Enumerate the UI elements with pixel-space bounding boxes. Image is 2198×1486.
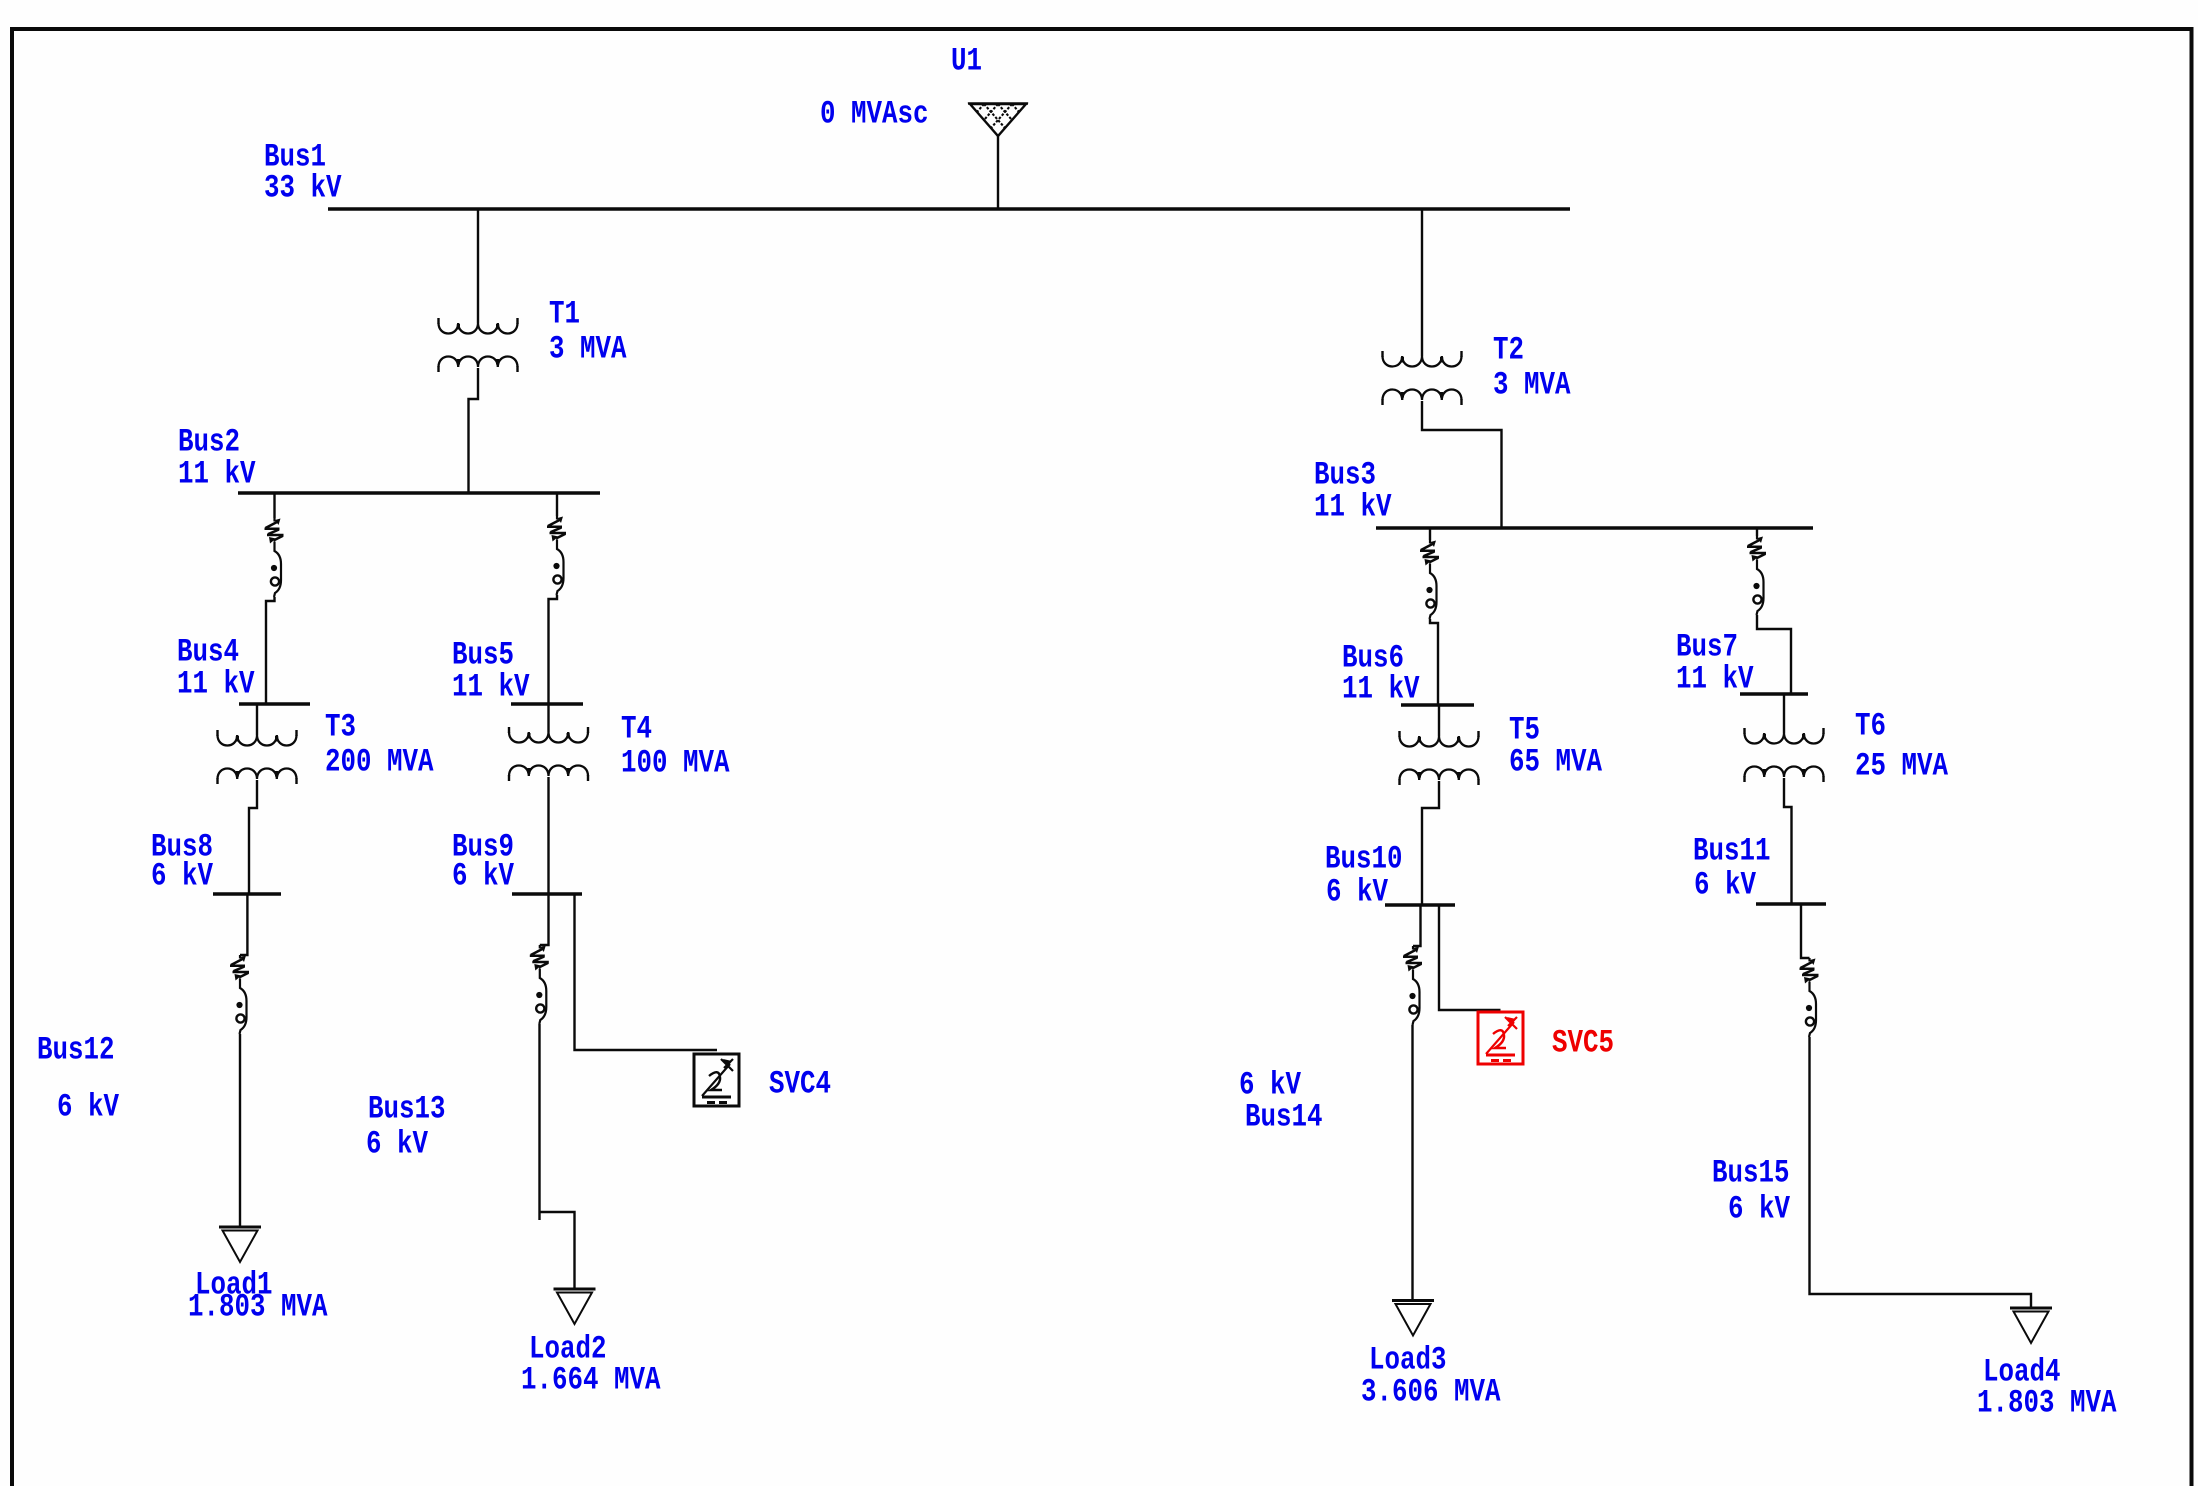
svg-text:U1: U1 (951, 42, 982, 79)
transformer T6 (1745, 733, 1824, 744)
SVC SVC4 (694, 1054, 739, 1106)
svg-text:33 kV: 33 kV (264, 169, 342, 206)
wire Bus3 to Cable4 (1756, 529, 1758, 536)
cable Cable7 (1403, 946, 1422, 1025)
svg-text:6 kV: 6 kV (1728, 1190, 1791, 1227)
svg-text:T1: T1 (549, 295, 580, 332)
cable Cable6 (530, 945, 549, 1024)
cable Cable4 (1747, 536, 1766, 615)
wire Bus8 to Cable5 (240, 895, 247, 955)
wire Cable5 to Load1 (239, 1034, 241, 1227)
wire T5 to Bus10 (1422, 781, 1439, 906)
svg-text:11 kV: 11 kV (178, 455, 256, 492)
bus Bus5 (511, 702, 583, 705)
wire Bus9 to SVC4 (575, 895, 718, 1050)
wire T6 to Bus11 (1784, 778, 1792, 905)
load Load1 (219, 1226, 261, 1229)
utility source U1 (968, 104, 1028, 137)
wire Bus10 to SVC5 (1439, 906, 1501, 1010)
svg-text:65 MVA: 65 MVA (1509, 743, 1603, 780)
svg-text:T2: T2 (1493, 331, 1524, 368)
transformer T5 (1400, 736, 1479, 747)
wire Bus10 to Cable7 (1413, 906, 1421, 946)
wire Cable1 to Bus4 (266, 597, 275, 705)
svg-text:6 kV: 6 kV (151, 857, 214, 894)
svg-text:T6: T6 (1855, 707, 1886, 744)
svg-text:11 kV: 11 kV (1676, 660, 1754, 697)
svg-text:T4: T4 (621, 710, 652, 747)
bus Bus11 (1756, 902, 1826, 905)
svg-text:6 kV: 6 kV (366, 1125, 429, 1162)
svg-text:6 kV: 6 kV (1326, 873, 1389, 910)
svg-text:100 MVA: 100 MVA (621, 744, 730, 781)
wire Cable7 to Load3 (1411, 1025, 1413, 1300)
svg-text:Bus13: Bus13 (368, 1090, 446, 1127)
wire T3 to Bus8 (249, 780, 257, 895)
wire Bus4 to T3 (256, 705, 258, 735)
bus Bus3 (1376, 526, 1813, 529)
wire Cable4 to Bus7 (1757, 615, 1791, 695)
load Load3 (1392, 1299, 1434, 1302)
svg-text:11 kV: 11 kV (1342, 670, 1420, 707)
svg-text:25 MVA: 25 MVA (1855, 747, 1949, 784)
wire Cable3 to Bus6 (1430, 619, 1438, 706)
cable Cable5 (230, 955, 249, 1034)
bus Bus9 (512, 892, 582, 895)
wire Cable8 to Load4 (1810, 1037, 2032, 1308)
wire Bus2 to Cable2 (556, 494, 558, 516)
wire Bus2 to Cable1 (273, 494, 275, 518)
svg-text:Bus14: Bus14 (1245, 1098, 1323, 1135)
svg-text:11 kV: 11 kV (1314, 488, 1392, 525)
wire U1 to Bus1 (997, 136, 999, 209)
bus Bus8 (213, 892, 281, 895)
svg-text:T3: T3 (325, 708, 356, 745)
svg-text:1.664 MVA: 1.664 MVA (521, 1361, 661, 1398)
cable Cable1 (265, 518, 284, 597)
wire Bus6 to T5 (1438, 706, 1440, 736)
svg-text:6 kV: 6 kV (1694, 866, 1757, 903)
transformer T4 (509, 732, 588, 743)
load Load2 (554, 1288, 596, 1291)
svg-text:11 kV: 11 kV (177, 665, 255, 702)
svg-text:6 kV: 6 kV (452, 857, 515, 894)
wire Bus7 to T6 (1783, 695, 1785, 733)
wire Bus9 to Cable6 (540, 895, 549, 945)
bus Bus1 (328, 207, 1570, 210)
wire Cable2 to Bus5 (549, 595, 558, 705)
SVC SVC5 (1478, 1012, 1523, 1064)
svg-text:SVC4: SVC4 (769, 1065, 831, 1102)
svg-text:SVC5: SVC5 (1552, 1024, 1614, 1061)
wire Bus3 to Cable3 (1429, 529, 1431, 540)
svg-text:Bus10: Bus10 (1325, 840, 1403, 877)
svg-text:Bus12: Bus12 (37, 1031, 115, 1068)
bus Bus4 (239, 702, 310, 705)
svg-text:0 MVAsc: 0 MVAsc (820, 95, 929, 132)
svg-text:3 MVA: 3 MVA (1493, 366, 1571, 403)
cable Cable3 (1420, 540, 1439, 619)
svg-text:3.606 MVA: 3.606 MVA (1361, 1373, 1501, 1410)
svg-text:6 kV: 6 kV (57, 1088, 120, 1125)
cable Cable2 (547, 516, 566, 595)
load Load4 (2010, 1307, 2052, 1310)
wire Bus11 to Cable8 (1801, 905, 1810, 958)
svg-text:3 MVA: 3 MVA (549, 330, 627, 367)
wire T1 to Bus2 (469, 368, 479, 494)
bus Bus2 (238, 491, 600, 494)
transformer T3 (218, 735, 297, 746)
svg-text:1.803 MVA: 1.803 MVA (1977, 1384, 2117, 1421)
wire Bus5 to T4 (547, 705, 549, 732)
bus Bus10 (1385, 903, 1455, 906)
svg-text:Bus11: Bus11 (1693, 832, 1771, 869)
wire Cable6 to Load2 (538, 1024, 540, 1220)
transformer T2 (1383, 356, 1462, 367)
transformer T1 (439, 323, 518, 334)
svg-text:11 kV: 11 kV (452, 668, 530, 705)
wire T4 to Bus9 (547, 777, 549, 895)
wire Bus1 to T1 (477, 210, 479, 323)
cable Cable8 (1800, 958, 1819, 1037)
wire Bus1 to T2 (1421, 210, 1423, 356)
bus Bus6 (1401, 703, 1474, 706)
svg-text:Bus15: Bus15 (1712, 1154, 1790, 1191)
wire T2 to Bus3 (1422, 401, 1502, 529)
svg-text:200 MVA: 200 MVA (325, 743, 434, 780)
bus Bus7 (1740, 692, 1808, 695)
svg-text:1.803 MVA: 1.803 MVA (188, 1288, 328, 1325)
